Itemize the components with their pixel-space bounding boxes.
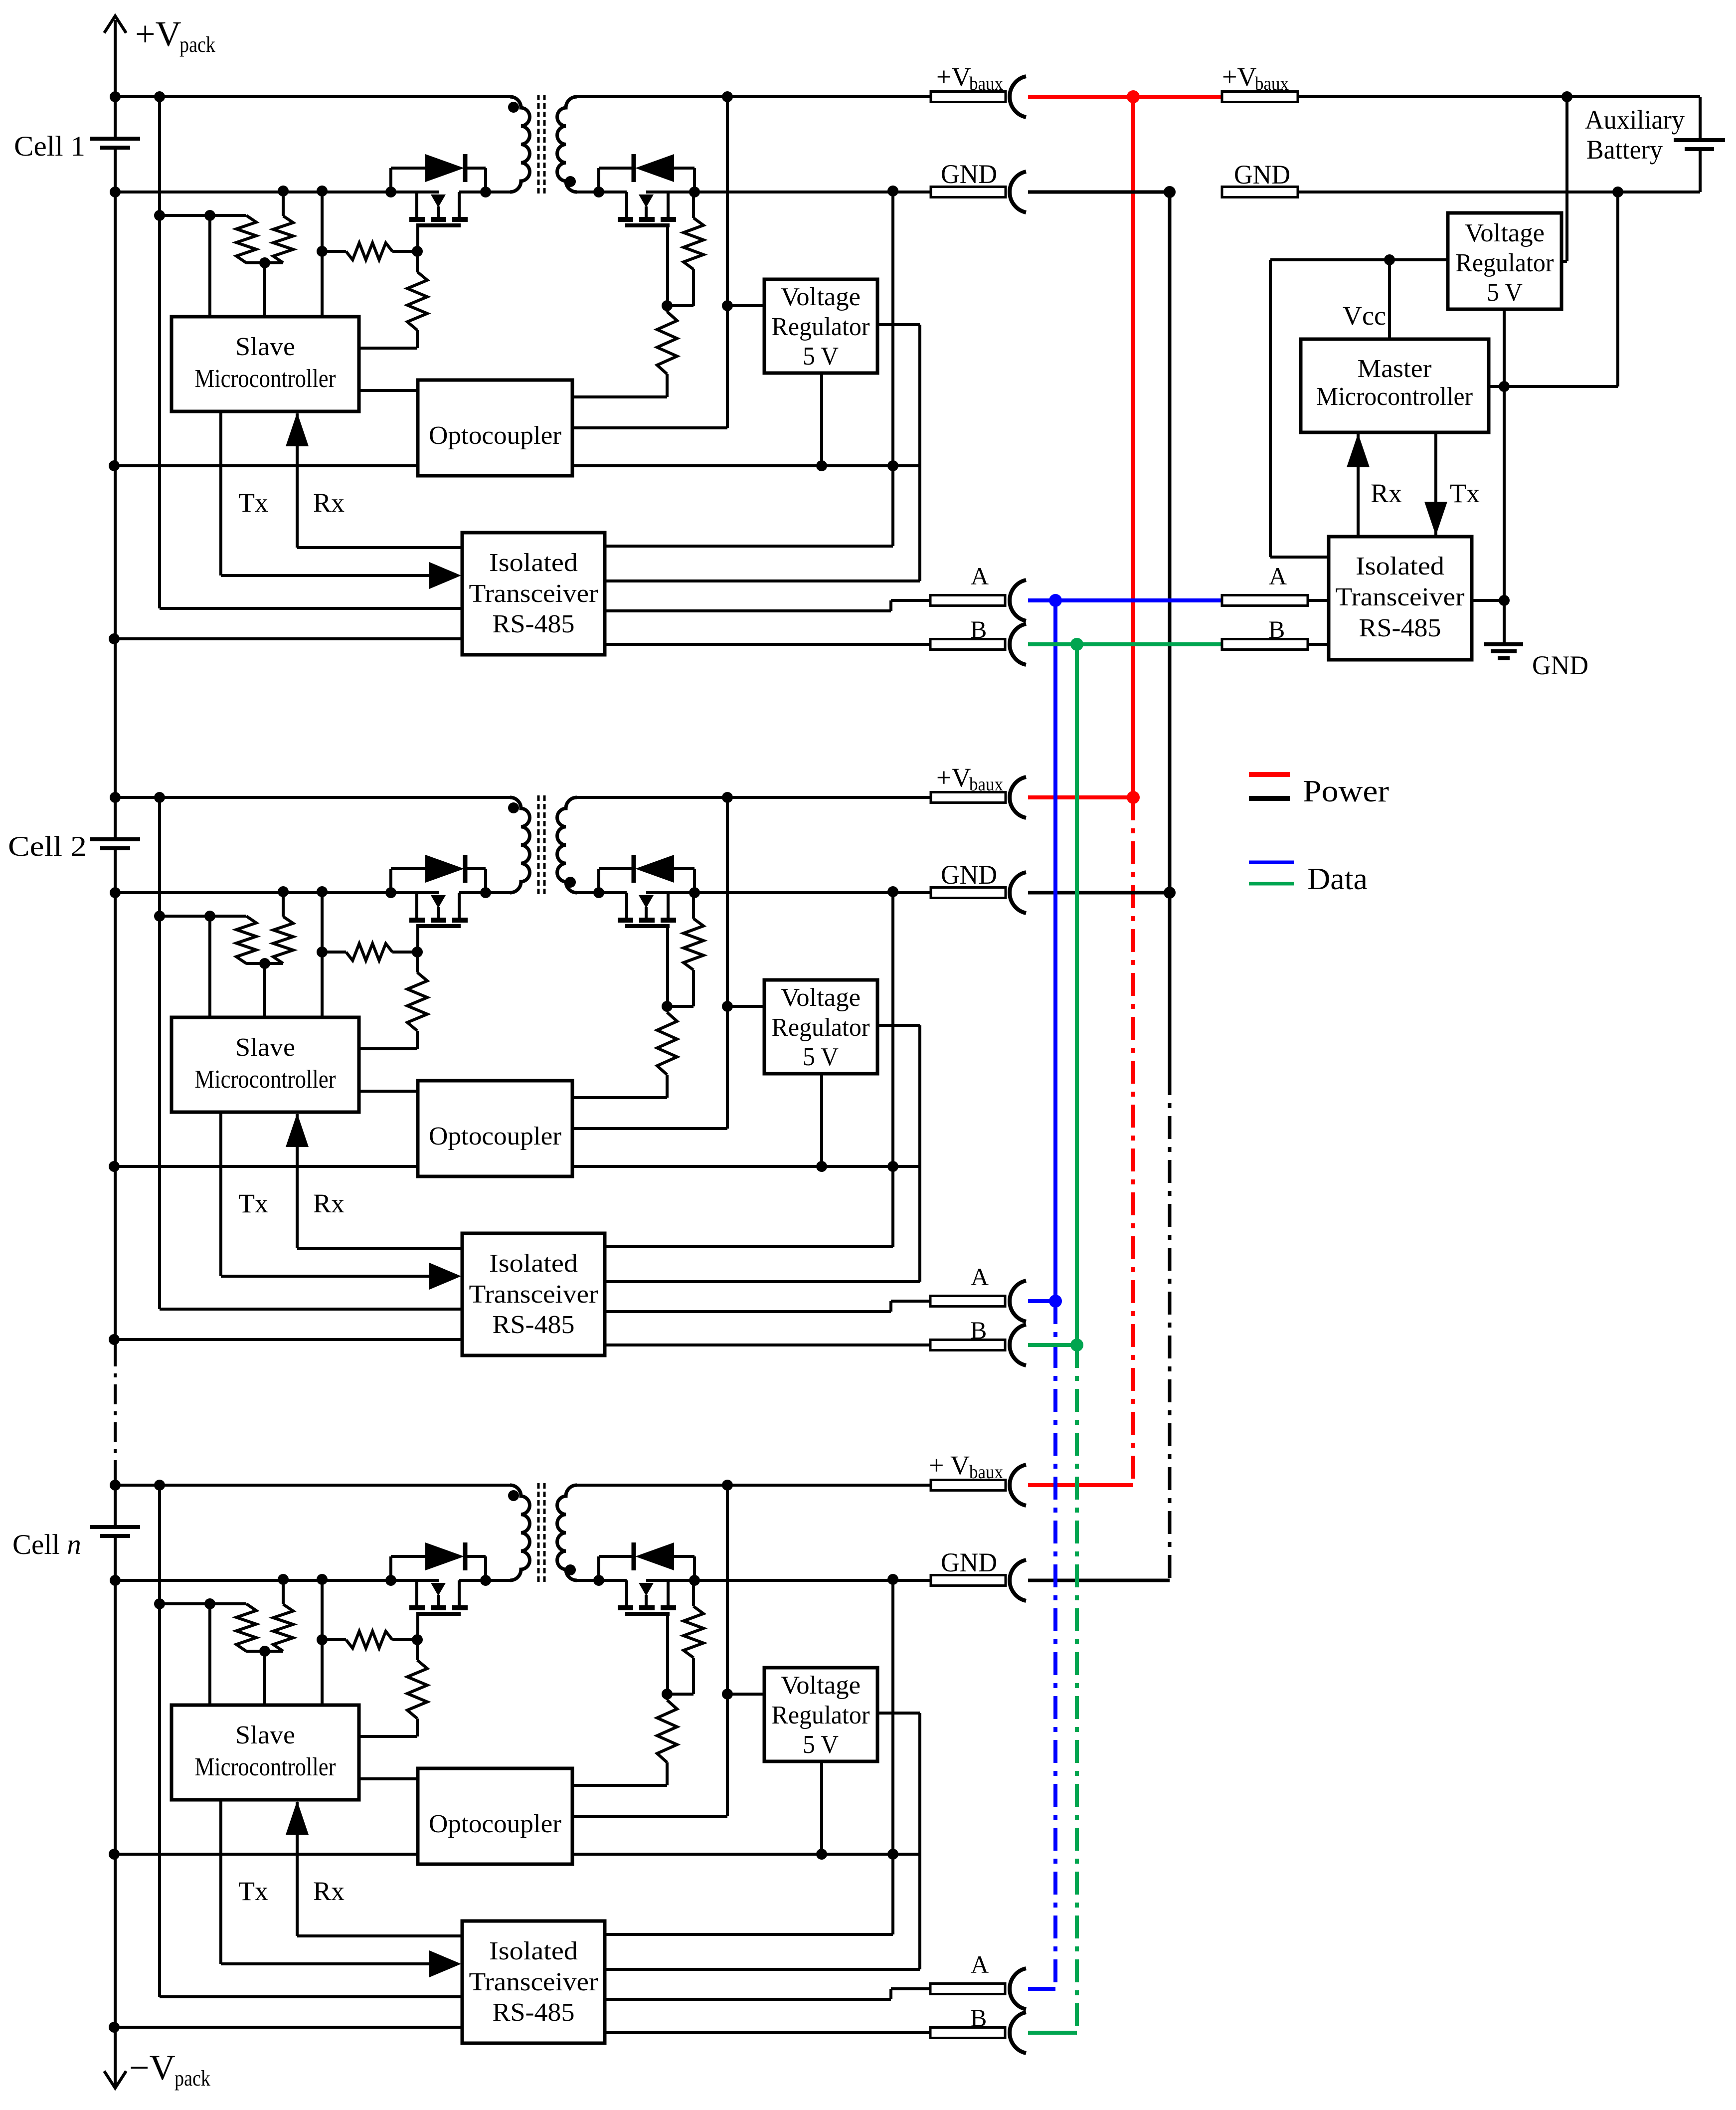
svg-text:Tx: Tx [1450,478,1480,508]
svg-text:Cell 1: Cell 1 [14,131,85,162]
svg-text:+V: +V [936,62,971,92]
svg-text:+V: +V [936,763,971,792]
svg-text:baux: baux [969,1462,1003,1483]
svg-text:baux: baux [969,73,1003,94]
svg-text:Regulator: Regulator [1456,249,1554,277]
svg-text:pack: pack [179,32,215,57]
svg-text:baux: baux [969,774,1003,795]
svg-text:A: A [1269,562,1287,590]
svg-text:Cell 2: Cell 2 [8,831,87,862]
svg-text:Voltage: Voltage [1465,219,1545,247]
svg-text:GND: GND [1532,650,1588,680]
svg-text:RS-485: RS-485 [1359,614,1441,642]
svg-text:Data: Data [1307,862,1368,896]
svg-text:GND: GND [1234,160,1290,190]
svg-text:Transceiver: Transceiver [1336,583,1465,611]
svg-text:pack: pack [174,2066,210,2091]
svg-text:Master: Master [1358,355,1432,383]
svg-text:baux: baux [1255,73,1289,94]
svg-text:Microcontroller: Microcontroller [1316,383,1473,411]
svg-text:Cell n: Cell n [12,1529,81,1560]
svg-text:B: B [1268,615,1285,643]
svg-text:Power: Power [1303,774,1389,808]
svg-text:5 V: 5 V [1487,278,1523,307]
svg-text:Rx: Rx [1371,478,1402,508]
svg-text:+V: +V [1222,62,1256,92]
svg-text:Vcc: Vcc [1343,301,1386,331]
svg-text:−V: −V [129,2048,175,2088]
svg-text:+ V: + V [929,1450,970,1480]
svg-text:+V: +V [135,14,181,54]
svg-text:Isolated: Isolated [1356,552,1444,580]
svg-text:Auxiliary: Auxiliary [1585,105,1685,135]
svg-text:Battery: Battery [1586,135,1663,165]
